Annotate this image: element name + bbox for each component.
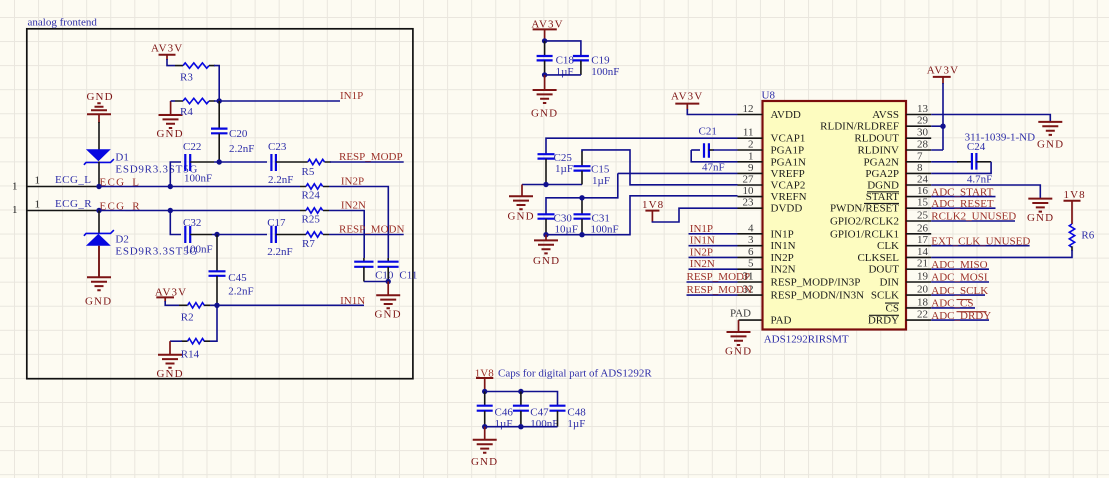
svg-text:21: 21: [917, 258, 928, 270]
svg-text:C18: C18: [556, 55, 575, 67]
wire IN1N to pin 3: [689, 245, 738, 247]
svg-text:IN1N: IN1N: [690, 235, 715, 247]
svg-text:GND: GND: [471, 456, 498, 468]
capacitor C30 10uF: [538, 213, 578, 236]
wire DGND pin 24 to ground: [931, 185, 1040, 198]
svg-text:RESP_MODN: RESP_MODN: [687, 284, 752, 296]
capacitor C48 1uF: [550, 406, 587, 430]
resistor R4: [171, 98, 215, 118]
wire IN2P to pin 6: [689, 256, 738, 258]
svg-text:C19: C19: [591, 55, 610, 67]
svg-text:EXT_CLK_UNUSED: EXT_CLK_UNUSED: [931, 235, 1030, 247]
capacitor C15 1uF: [574, 151, 610, 187]
capacitor C24 4.7nF: [931, 141, 992, 186]
svg-text:IN2N: IN2N: [771, 264, 796, 276]
svg-text:C23: C23: [268, 141, 287, 153]
capacitor C10: [354, 258, 394, 282]
ground GND (left of R14): [157, 341, 184, 380]
svg-text:RESP_MODN: RESP_MODN: [339, 224, 404, 236]
node junction C20/C22/C23: [217, 159, 222, 164]
svg-text:2.2nF: 2.2nF: [229, 143, 254, 155]
svg-text:R3: R3: [180, 72, 193, 84]
svg-text:C48: C48: [567, 407, 586, 419]
port pin ECG_L: [12, 174, 99, 192]
svg-text:IN1N: IN1N: [340, 295, 365, 307]
power port AV3V (above C18/C19): [531, 19, 563, 42]
svg-text:C22: C22: [183, 141, 201, 153]
power port 1V8 (caps section): [476, 378, 493, 392]
wire C10/C11 common: [364, 281, 388, 283]
wire pin 29 to AV3V: [931, 125, 943, 127]
capacitor C20 2.2nF: [211, 101, 254, 162]
svg-text:6: 6: [748, 246, 754, 258]
wire to C23: [214, 161, 267, 163]
svg-text:R4: R4: [180, 106, 193, 118]
capacitor C23 2.2nF: [268, 141, 293, 186]
svg-text:IN2N: IN2N: [690, 258, 715, 270]
power port 1V8 (at DVDD): [642, 199, 738, 222]
svg-text:18: 18: [917, 296, 929, 308]
svg-text:1V8: 1V8: [642, 199, 664, 211]
svg-text:1: 1: [35, 199, 41, 211]
svg-text:10µF: 10µF: [555, 224, 578, 236]
svg-text:C21: C21: [699, 126, 717, 138]
resistor R5: [276, 159, 331, 178]
svg-text:ECG_L: ECG_L: [55, 174, 91, 186]
chip left pin stubs: [738, 115, 763, 296]
svg-text:IN2P: IN2P: [341, 176, 364, 188]
wire down to R14: [210, 305, 217, 341]
svg-text:PAD: PAD: [730, 308, 751, 320]
node junction C45/R2/R14/IN1N: [214, 303, 219, 308]
svg-text:16: 16: [917, 185, 929, 197]
svg-text:GND: GND: [85, 296, 112, 308]
capacitor C21 47nF: [691, 126, 737, 174]
ground GND (left of C25): [508, 185, 535, 223]
svg-text:7: 7: [917, 150, 923, 162]
wire ADC_RESET: [931, 207, 995, 209]
ground GND (below D2): [85, 246, 112, 308]
wire ADC_MISO: [931, 268, 989, 270]
capacitor C22 100nF: [183, 141, 214, 185]
wire RCLK2_UNUSED: [931, 220, 1015, 222]
svg-text:DRDY: DRDY: [868, 315, 899, 327]
svg-text:C10: C10: [375, 270, 394, 282]
svg-text:24: 24: [917, 174, 929, 186]
svg-text:1: 1: [35, 174, 41, 186]
svg-text:analog frontend: analog frontend: [28, 17, 98, 29]
wire RESP_MODP to pin 31: [687, 281, 738, 283]
svg-text:4.7nF: 4.7nF: [967, 174, 992, 186]
capacitor C17 2.2nF: [267, 217, 292, 258]
wire ADC_DRDY: [931, 319, 989, 321]
wire C15 to VCAP2 pin 27: [582, 150, 738, 185]
svg-text:VCAP1: VCAP1: [771, 133, 806, 145]
port pin ECG_R: [12, 198, 99, 216]
svg-text:100nF: 100nF: [185, 244, 213, 256]
svg-text:C32: C32: [183, 217, 201, 229]
svg-text:IN1P: IN1P: [771, 228, 794, 240]
svg-text:DOUT: DOUT: [868, 264, 899, 276]
wire C30/C31 bottom rail to VREFN pin 10: [546, 196, 738, 235]
svg-text:PGA2N: PGA2N: [864, 156, 900, 168]
ground GND (DGND): [1027, 199, 1054, 224]
svg-text:5: 5: [748, 258, 754, 270]
wire top rail C46/C47/C48: [485, 392, 558, 406]
node junction AV3V/C18/C19: [542, 38, 547, 43]
svg-text:PWDN/RESET: PWDN/RESET: [830, 203, 899, 215]
svg-text:AV3V: AV3V: [927, 65, 959, 77]
node junction C32/C17/C45: [214, 232, 219, 237]
resistor R6: [1069, 224, 1094, 251]
svg-text:GND: GND: [157, 128, 184, 140]
svg-text:IN2P: IN2P: [771, 252, 794, 264]
svg-text:R5: R5: [302, 166, 315, 178]
svg-text:PGA1P: PGA1P: [771, 145, 805, 157]
svg-text:RESP_MODP: RESP_MODP: [339, 151, 403, 163]
svg-text:VREFN: VREFN: [771, 191, 807, 203]
svg-text:1: 1: [748, 150, 754, 162]
resistor R24: [300, 184, 329, 202]
svg-text:AVSS: AVSS: [872, 109, 899, 121]
wire AVSS pin 13 to ground: [931, 115, 1050, 122]
pin numbers left: [743, 103, 755, 296]
wire R3 to IN1P node: [214, 66, 219, 101]
svg-text:IN1P: IN1P: [340, 90, 363, 102]
svg-text:1: 1: [12, 180, 18, 192]
pin numbers right: [917, 103, 929, 321]
svg-text:IN2N: IN2N: [341, 200, 366, 212]
svg-text:START: START: [866, 191, 900, 203]
wire C18/C19 common: [545, 74, 581, 76]
overlines active-low pins: [864, 192, 899, 315]
node junction at R4/IN1P: [217, 98, 222, 103]
svg-text:1V8: 1V8: [1064, 189, 1086, 201]
svg-text:20: 20: [917, 284, 929, 296]
wire C22 branch: [170, 162, 181, 187]
diode D2 ESD9R3.3ST5G: [84, 211, 198, 278]
wire IN2P to C11: [329, 187, 388, 259]
svg-text:AV3V: AV3V: [671, 91, 703, 103]
svg-text:30: 30: [917, 127, 929, 139]
power port AV3V (at R2): [155, 286, 187, 305]
wire RESP_MODN: [329, 234, 404, 236]
wire ECG_L to R24: [99, 186, 300, 188]
svg-text:ADC_START: ADC_START: [931, 186, 993, 198]
svg-text:14: 14: [917, 246, 929, 258]
section note 1V8 caps: [475, 368, 653, 380]
svg-text:RESP_MODP: RESP_MODP: [687, 271, 751, 283]
resistor R7: [276, 232, 329, 250]
svg-text:RESP_MODN/IN3N: RESP_MODN/IN3N: [771, 290, 865, 302]
pin names right column: [820, 109, 899, 327]
wire ECG_R to R25: [99, 210, 300, 212]
wire ADC_MOSI: [931, 281, 989, 283]
svg-text:2.2nF: 2.2nF: [267, 246, 292, 258]
svg-text:2.2nF: 2.2nF: [268, 174, 293, 186]
svg-text:1µF: 1µF: [555, 163, 573, 175]
svg-text:13: 13: [917, 103, 929, 115]
svg-text:PAD: PAD: [771, 315, 792, 327]
capacitor C11: [378, 258, 418, 282]
svg-text:DVDD: DVDD: [771, 203, 803, 215]
svg-text:RCLK2_UNUSED: RCLK2_UNUSED: [931, 211, 1016, 223]
svg-text:D1: D1: [115, 152, 128, 164]
wire PAD to ground: [739, 319, 763, 321]
capacitor C31 100nF: [574, 198, 619, 236]
svg-text:IN1P: IN1P: [690, 223, 713, 235]
wire ADC_CS: [931, 307, 975, 309]
wire IN1N: [210, 304, 364, 306]
svg-text:12: 12: [743, 103, 754, 115]
wire VREFP down to C30/C31 rail: [546, 173, 618, 214]
svg-text:23: 23: [743, 197, 755, 209]
svg-text:ADC_MISO: ADC_MISO: [931, 259, 987, 271]
resistor R25: [300, 208, 329, 226]
svg-text:C47: C47: [530, 407, 549, 419]
pin names left column: [771, 109, 865, 327]
svg-text:2.2nF: 2.2nF: [228, 286, 253, 298]
svg-text:GND: GND: [533, 255, 560, 267]
capacitor C25 1uF: [538, 152, 573, 185]
power port AV3V (at AVDD pin 12): [671, 91, 738, 115]
svg-text:VREFP: VREFP: [771, 168, 805, 180]
wire bottom rail C46/C47/C48: [485, 426, 558, 428]
wire ADC_START: [931, 196, 995, 198]
capacitor C18 1uF: [537, 41, 575, 78]
svg-text:ECG_R: ECG_R: [55, 198, 92, 210]
svg-text:100nF: 100nF: [530, 418, 558, 430]
svg-text:GND: GND: [1037, 139, 1064, 151]
svg-text:ADS1292RIRSMT: ADS1292RIRSMT: [764, 334, 849, 346]
svg-text:C11: C11: [399, 270, 417, 282]
svg-text:10: 10: [743, 185, 755, 197]
svg-text:GND: GND: [157, 368, 184, 380]
diode D1 ESD9R3.3ST5G: [84, 149, 198, 186]
svg-text:22: 22: [917, 309, 928, 321]
power port 1V8 (at R6): [1064, 189, 1086, 224]
svg-text:PGA2P: PGA2P: [865, 168, 899, 180]
svg-text:1µF: 1µF: [592, 175, 610, 187]
wire to C17: [212, 234, 267, 236]
svg-text:R24: R24: [302, 190, 321, 202]
wire CLKSEL pin 14 to R6: [931, 250, 1072, 257]
svg-text:C24: C24: [967, 141, 986, 153]
svg-text:AVDD: AVDD: [771, 109, 801, 121]
wire ADC_SCLK: [931, 294, 985, 296]
svg-text:CLK: CLK: [877, 240, 899, 252]
svg-text:CLKSEL: CLKSEL: [857, 252, 899, 264]
ground GND (below C18): [531, 75, 558, 120]
wire C19 top branch: [545, 41, 581, 56]
svg-text:15: 15: [917, 197, 929, 209]
svg-text:11: 11: [743, 127, 754, 139]
chip right pin stubs: [906, 115, 931, 321]
resistor R3: [175, 63, 215, 84]
svg-text:DGND: DGND: [867, 180, 899, 192]
wire RESP_MODP: [330, 161, 404, 163]
svg-text:Caps for digital part of ADS12: Caps for digital part of ADS1292R: [498, 368, 652, 380]
svg-text:GND: GND: [508, 211, 535, 223]
svg-text:C20: C20: [229, 128, 248, 140]
svg-text:19: 19: [917, 271, 929, 283]
svg-text:1µF: 1µF: [556, 66, 574, 78]
svg-text:GPIO1/RCLK1: GPIO1/RCLK1: [830, 228, 899, 240]
wire IN1P to pin 4: [689, 233, 738, 235]
wire VREFP pin 9: [618, 172, 738, 174]
svg-text:CS: CS: [886, 302, 899, 314]
wire EXT_CLK_UNUSED: [931, 245, 1029, 247]
svg-text:D2: D2: [115, 234, 128, 246]
svg-text:R2: R2: [181, 312, 194, 324]
svg-text:47nF: 47nF: [702, 162, 725, 174]
svg-text:ADC_RESET: ADC_RESET: [931, 198, 994, 210]
ground GND (below C30): [533, 235, 560, 267]
resistor R2: [179, 303, 210, 324]
svg-text:GPIO2/RCLK2: GPIO2/RCLK2: [830, 216, 899, 228]
svg-text:SCLK: SCLK: [871, 290, 899, 302]
svg-text:29: 29: [917, 115, 929, 127]
svg-text:26: 26: [917, 222, 929, 234]
svg-text:IN2P: IN2P: [690, 246, 713, 258]
svg-text:GND: GND: [531, 108, 558, 120]
capacitor C19 100nF: [573, 55, 620, 78]
svg-text:C46: C46: [495, 407, 514, 419]
wire RESP_MODN to pin 32: [687, 294, 738, 296]
svg-text:R25: R25: [302, 214, 321, 226]
svg-text:GND: GND: [87, 91, 114, 103]
svg-text:C17: C17: [267, 217, 286, 229]
svg-text:1µF: 1µF: [495, 418, 513, 430]
svg-text:28: 28: [917, 139, 929, 151]
resistor R14: [181, 339, 210, 361]
svg-text:100nF: 100nF: [591, 224, 619, 236]
svg-text:8: 8: [917, 162, 923, 174]
svg-text:R14: R14: [181, 349, 200, 361]
svg-text:U8: U8: [762, 90, 776, 102]
svg-text:PGA1N: PGA1N: [771, 156, 807, 168]
capacitor C32 100nF: [183, 217, 213, 256]
svg-text:GND: GND: [375, 309, 402, 321]
svg-text:ADC_SCLK: ADC_SCLK: [931, 285, 988, 297]
svg-text:3: 3: [748, 234, 754, 246]
capacitor C45 2.2nF: [209, 235, 254, 306]
power port AV3V (top of analog box): [151, 43, 183, 66]
svg-text:GND: GND: [1027, 212, 1054, 224]
ground GND (below C10/C11): [375, 282, 402, 321]
svg-text:VCAP2: VCAP2: [771, 180, 806, 192]
svg-text:RESP_MODP/IN3P: RESP_MODP/IN3P: [771, 277, 861, 289]
svg-text:C15: C15: [591, 164, 610, 176]
wire IN2N to pin 5: [689, 268, 738, 270]
op-amp/IC U8 ADS1292RIRSMT body: [762, 90, 907, 346]
ground GND (left of R4): [157, 101, 184, 140]
svg-text:R6: R6: [1081, 230, 1094, 242]
svg-text:ADC_MOSI: ADC_MOSI: [931, 272, 988, 284]
svg-text:RLDIN/RLDREF: RLDIN/RLDREF: [820, 121, 899, 133]
ground GND (caps section): [471, 427, 498, 468]
wire IN1P: [214, 100, 340, 102]
wire IN2N to C10: [329, 211, 364, 259]
svg-text:9: 9: [748, 162, 754, 174]
svg-text:DIN: DIN: [879, 277, 899, 289]
svg-text:1µF: 1µF: [567, 418, 585, 430]
wire GND rail C25/C15: [522, 184, 582, 186]
ground GND (PAD): [725, 320, 752, 357]
wire VCAP1 pin 11: [546, 138, 738, 154]
analog frontend blanket box: [27, 17, 413, 379]
svg-text:25: 25: [917, 210, 929, 222]
svg-text:27: 27: [743, 174, 755, 186]
svg-text:GND: GND: [725, 346, 752, 358]
svg-text:AV3V: AV3V: [151, 43, 183, 55]
ground GND (above D1, inverted): [87, 91, 114, 150]
svg-text:2: 2: [748, 139, 754, 151]
svg-text:IN1N: IN1N: [771, 240, 796, 252]
svg-text:17: 17: [917, 234, 929, 246]
wire C32 branch: [170, 211, 181, 235]
svg-text:4: 4: [748, 222, 754, 234]
svg-text:R7: R7: [302, 238, 315, 250]
svg-text:1: 1: [12, 204, 18, 216]
capacitor C47 100nF: [513, 392, 559, 431]
svg-text:C45: C45: [228, 272, 247, 284]
ground GND (AVSS): [1037, 122, 1064, 151]
capacitor C46 1uF: [477, 392, 514, 431]
svg-text:RLDINV: RLDINV: [857, 145, 899, 157]
svg-text:RLDOUT: RLDOUT: [854, 133, 899, 145]
power port AV3V (right, RLD): [927, 65, 959, 151]
svg-text:100nF: 100nF: [591, 66, 619, 78]
svg-text:100nF: 100nF: [184, 173, 212, 185]
